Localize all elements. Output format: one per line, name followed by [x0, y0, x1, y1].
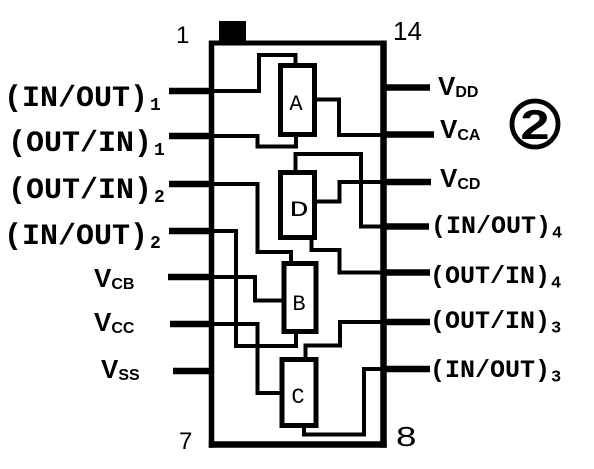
svg-text:(IN/OUT)3: (IN/OUT)3: [430, 356, 561, 388]
svg-text:VCD: VCD: [440, 163, 480, 193]
svg-text:8: 8: [396, 420, 416, 452]
svg-text:(OUT/IN)2: (OUT/IN)2: [8, 174, 165, 208]
svg-text:VSS: VSS: [101, 354, 140, 384]
svg-text:(OUT/IN)1: (OUT/IN)1: [8, 127, 165, 161]
svg-text:A: A: [289, 92, 303, 117]
svg-text:(IN/OUT)4: (IN/OUT)4: [431, 212, 562, 244]
svg-text:B: B: [292, 292, 305, 317]
svg-text:D: D: [289, 198, 308, 223]
svg-text:C: C: [291, 385, 304, 410]
svg-text:14: 14: [393, 16, 422, 46]
svg-text:(IN/OUT)2: (IN/OUT)2: [4, 220, 161, 254]
svg-text:7: 7: [179, 428, 192, 455]
svg-text:VCC: VCC: [94, 307, 135, 337]
svg-text:VCB: VCB: [94, 263, 134, 293]
svg-text:VCA: VCA: [440, 114, 481, 144]
svg-text:VDD: VDD: [438, 71, 478, 101]
svg-text:1: 1: [176, 22, 189, 49]
svg-text:(IN/OUT)1: (IN/OUT)1: [4, 82, 161, 116]
svg-text:(OUT/IN)3: (OUT/IN)3: [430, 307, 561, 339]
svg-text:(OUT/IN)4: (OUT/IN)4: [430, 262, 561, 294]
svg-text:2: 2: [520, 102, 549, 149]
